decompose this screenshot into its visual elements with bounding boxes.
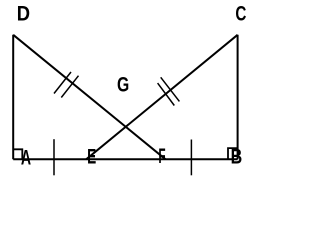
double tick 1 on CG <box>161 77 180 101</box>
svg-text:A: A <box>21 146 31 169</box>
svg-text:B: B <box>231 146 243 169</box>
svg-text:C: C <box>235 3 246 26</box>
tick mark on FB <box>190 140 192 176</box>
svg-text:D: D <box>17 3 30 26</box>
double tick 2 on CG <box>158 83 175 105</box>
right-angle mark at B <box>228 148 238 159</box>
svg-text:E: E <box>87 146 96 169</box>
tick mark on AE <box>53 139 55 175</box>
double tick 2 on DG <box>61 76 78 98</box>
svg-text:G: G <box>117 74 129 97</box>
segment CB (right vertical) <box>237 35 239 160</box>
right-angle mark at A <box>13 149 22 159</box>
segment CE (diagonal through G) <box>86 35 237 160</box>
segment DF (diagonal through G) <box>13 35 165 160</box>
double tick 1 on DG <box>54 72 71 94</box>
svg-text:F: F <box>158 145 165 168</box>
segment AB (base line) <box>13 158 237 160</box>
segment DA (left vertical) <box>12 35 14 160</box>
